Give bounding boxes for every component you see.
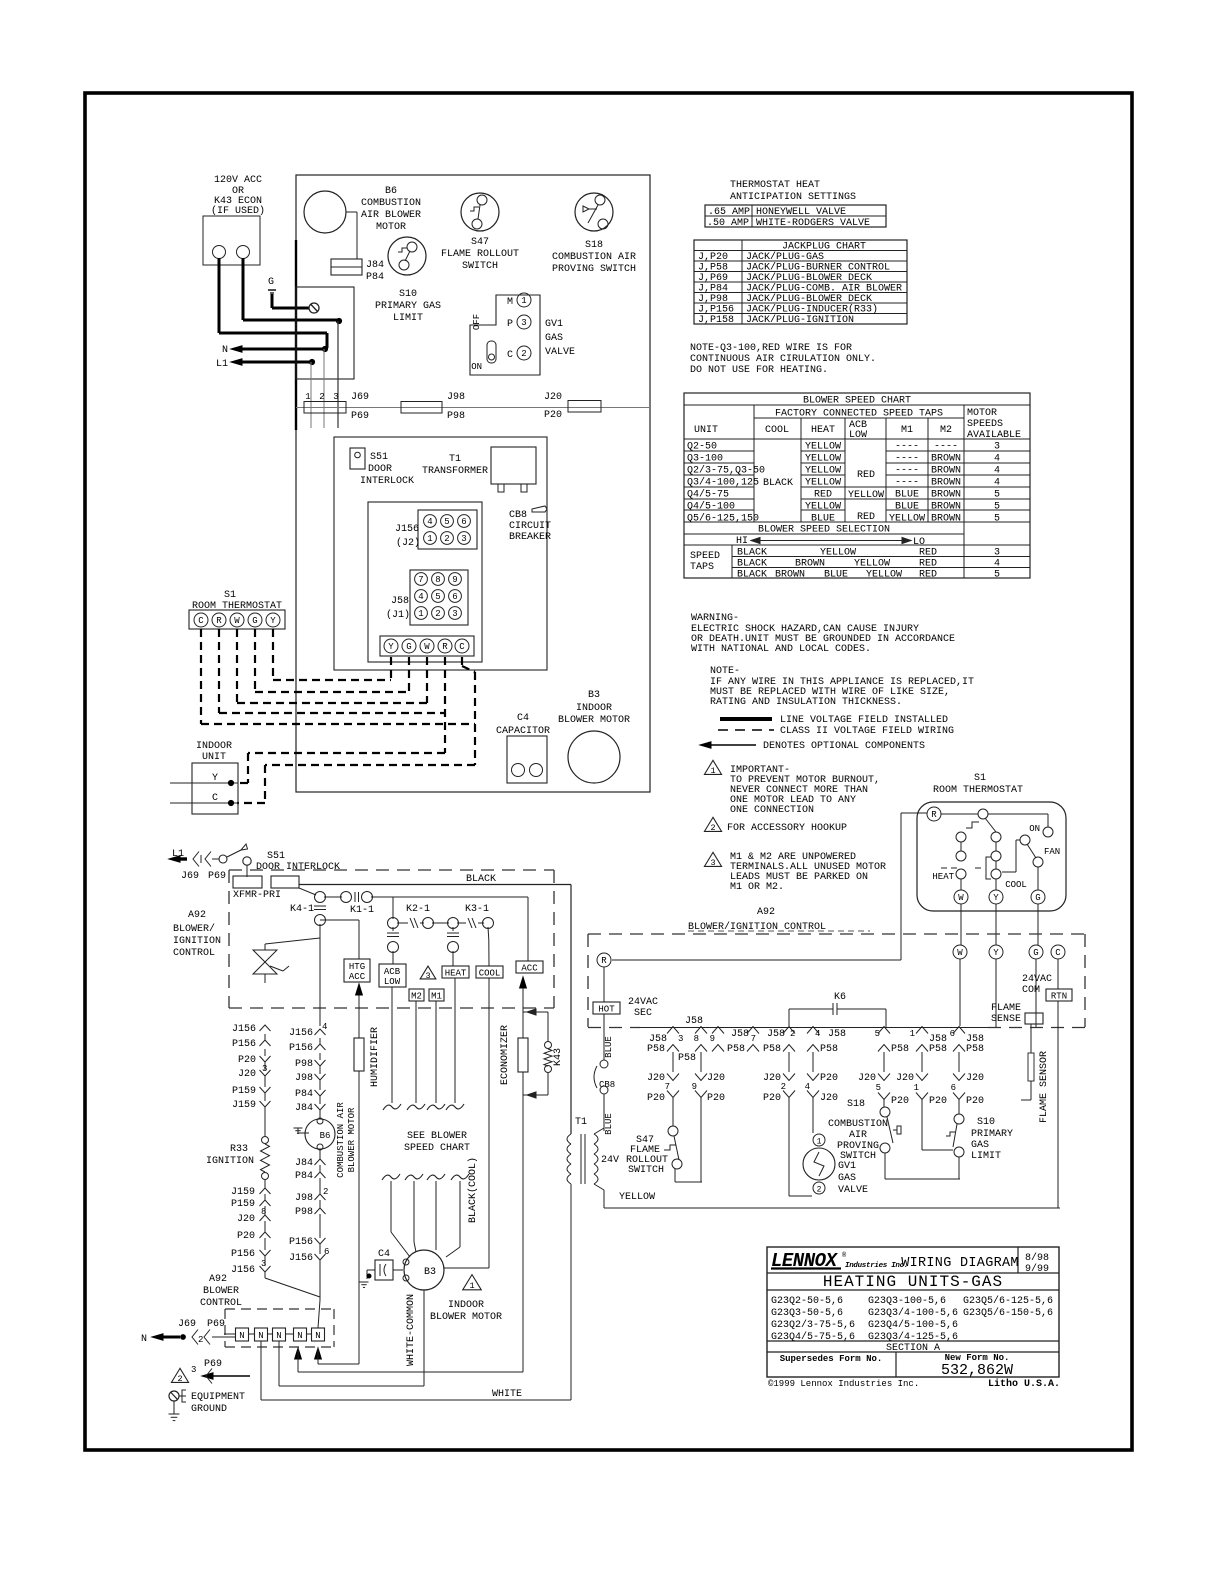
svg-text:G23Q3/4-100-5,6: G23Q3/4-100-5,6	[868, 1307, 958, 1319]
svg-text:1: 1	[521, 296, 526, 306]
svg-text:5: 5	[994, 570, 1000, 581]
svg-text:J84: J84	[295, 1103, 313, 1114]
svg-text:K3-1: K3-1	[465, 904, 489, 915]
svg-text:2: 2	[710, 823, 715, 833]
svg-text:C: C	[459, 642, 465, 652]
svg-text:3: 3	[425, 971, 430, 981]
svg-text:HONEYWELL VALVE: HONEYWELL VALVE	[756, 207, 846, 218]
svg-text:8: 8	[261, 1207, 266, 1217]
svg-text:----: ----	[895, 466, 919, 477]
wire cool black	[488, 978, 490, 1268]
svg-text:P58: P58	[763, 1044, 781, 1055]
svg-text:B6: B6	[385, 186, 397, 197]
wire N box1 to entry	[224, 1333, 236, 1335]
svg-text:BREAKER: BREAKER	[509, 532, 551, 543]
svg-text:J20: J20	[647, 1073, 665, 1084]
anticipation table	[705, 205, 886, 227]
svg-text:PRIMARY: PRIMARY	[971, 1129, 1013, 1140]
svg-text:JACK/PLUG-BLOWER DECK: JACK/PLUG-BLOWER DECK	[746, 272, 872, 284]
svg-text:1: 1	[914, 1083, 919, 1093]
svg-text:ONE CONNECTION: ONE CONNECTION	[730, 805, 814, 816]
connector J58 J1 grid	[410, 570, 468, 625]
svg-text:PRIMARY GAS: PRIMARY GAS	[375, 301, 441, 312]
screw terminal	[309, 303, 319, 313]
wire yellow bus	[603, 1190, 605, 1208]
svg-text:W: W	[958, 893, 964, 903]
svg-text:LOW: LOW	[849, 430, 867, 441]
svg-text:24VAC: 24VAC	[1022, 974, 1052, 985]
svg-text:G23Q3-100-5,6: G23Q3-100-5,6	[868, 1296, 946, 1307]
svg-text:J98: J98	[447, 392, 465, 403]
svg-text:P20: P20	[238, 1055, 256, 1066]
svg-text:J58: J58	[391, 596, 409, 607]
neutral terminal boxes N	[236, 1328, 249, 1341]
svg-text:1: 1	[469, 1281, 474, 1291]
svg-text:P58: P58	[929, 1044, 947, 1055]
motor B3 lower	[404, 1250, 444, 1290]
svg-text:N: N	[276, 1331, 281, 1341]
svg-text:COM: COM	[1022, 985, 1040, 996]
svg-text:4: 4	[994, 466, 1000, 477]
svg-text:J156: J156	[232, 1024, 256, 1035]
svg-text:M1 OR M2.: M1 OR M2.	[730, 882, 784, 893]
svg-text:3: 3	[262, 1064, 267, 1074]
svg-text:J20: J20	[820, 1093, 838, 1104]
svg-text:J98: J98	[295, 1193, 313, 1204]
svg-text:P98: P98	[447, 411, 465, 422]
svg-text:N: N	[141, 1334, 147, 1345]
svg-text:CONTROL: CONTROL	[200, 1298, 242, 1309]
svg-text:Q2/3-75,Q3-50: Q2/3-75,Q3-50	[687, 465, 765, 477]
svg-text:2: 2	[198, 1335, 203, 1345]
svg-text:SENSE: SENSE	[991, 1014, 1021, 1025]
switch S47 flame rollout symbol	[461, 193, 499, 231]
svg-text:BROWN: BROWN	[775, 570, 805, 581]
svg-text:ON: ON	[1029, 824, 1040, 834]
svg-text:2: 2	[435, 609, 440, 619]
svg-text:1: 1	[910, 1029, 915, 1039]
svg-text:P20: P20	[647, 1093, 665, 1104]
svg-text:M1: M1	[901, 425, 913, 436]
svg-text:TAPS: TAPS	[690, 562, 714, 573]
svg-text:SPEED CHART: SPEED CHART	[404, 1143, 470, 1154]
svg-text:BLUE: BLUE	[895, 502, 919, 513]
wire white-common	[423, 1290, 425, 1386]
wire humidifier line	[356, 984, 363, 995]
svg-text:YELLOW: YELLOW	[848, 490, 884, 501]
svg-text:J,P20: J,P20	[698, 252, 728, 263]
wire R to thermostat	[612, 959, 901, 961]
svg-text:B6: B6	[320, 1131, 331, 1141]
svg-text:J20: J20	[966, 1073, 984, 1084]
svg-text:J58: J58	[828, 1029, 846, 1040]
box HOT	[593, 1002, 620, 1014]
svg-text:8: 8	[694, 1034, 699, 1044]
connector tap J58-3 chain to S47	[667, 1027, 679, 1034]
svg-text:G23Q4/5-100-5,6: G23Q4/5-100-5,6	[868, 1319, 958, 1331]
terminal W lower	[953, 945, 967, 959]
svg-text:S1: S1	[974, 773, 986, 784]
svg-text:P84: P84	[295, 1089, 313, 1100]
svg-text:CB8: CB8	[599, 1080, 615, 1090]
svg-text:R: R	[442, 642, 448, 652]
box RTN	[1046, 989, 1072, 1001]
important triangle 1 note	[704, 760, 721, 774]
svg-text:P156: P156	[231, 1249, 255, 1260]
svg-text:DO NOT USE FOR HEATING.: DO NOT USE FOR HEATING.	[690, 365, 828, 376]
wire Y down lower	[995, 959, 997, 1027]
svg-text:SECTION A: SECTION A	[886, 1343, 940, 1354]
svg-text:LOW: LOW	[384, 977, 401, 987]
svg-text:J156: J156	[289, 1028, 313, 1039]
svg-text:RTN: RTN	[1051, 992, 1067, 1002]
svg-text:P159: P159	[232, 1086, 256, 1097]
svg-text:SEE BLOWER: SEE BLOWER	[407, 1131, 467, 1142]
svg-text:UNIT: UNIT	[202, 752, 226, 763]
svg-text:WHITE-RODGERS VALVE: WHITE-RODGERS VALVE	[756, 218, 870, 229]
svg-text:OFF: OFF	[472, 314, 482, 330]
svg-text:HEATING UNITS-GAS: HEATING UNITS-GAS	[823, 1273, 1003, 1291]
wire N with arrow	[231, 346, 242, 352]
svg-text:LIMIT: LIMIT	[971, 1151, 1001, 1162]
svg-text:YELLOW: YELLOW	[619, 1192, 655, 1203]
svg-text:ROOM THERMOSTAT: ROOM THERMOSTAT	[933, 785, 1023, 796]
triac ignition control symbol	[319, 924, 321, 938]
svg-text:P20: P20	[966, 1096, 984, 1107]
svg-text:8/98: 8/98	[1025, 1252, 1049, 1264]
terminal R lower	[597, 953, 611, 967]
wire pins 1 2 3 to J69	[310, 362, 312, 428]
svg-text:C: C	[507, 350, 513, 361]
svg-text:B3: B3	[424, 1267, 436, 1278]
svg-text:3: 3	[191, 1365, 196, 1375]
svg-text:BLUE: BLUE	[895, 490, 919, 501]
svg-text:S51: S51	[267, 851, 285, 862]
flame sensor rod	[1028, 1053, 1034, 1081]
wire W down	[960, 904, 962, 945]
connector J84 P84	[331, 259, 362, 275]
svg-text:S47: S47	[471, 237, 489, 248]
heat anticipator symbol	[966, 822, 979, 828]
svg-text:AIR: AIR	[849, 1130, 867, 1141]
svg-text:1: 1	[418, 609, 423, 619]
svg-text:HOT: HOT	[598, 1005, 615, 1015]
thermostat cool contact chain	[991, 832, 1001, 842]
svg-text:COMBUSTION AIR: COMBUSTION AIR	[336, 1102, 346, 1178]
svg-text:M1: M1	[431, 992, 442, 1002]
connector J20 P20	[568, 401, 601, 413]
svg-text:.65 AMP: .65 AMP	[708, 207, 750, 218]
svg-text:P58: P58	[966, 1044, 984, 1055]
svg-text:J,P58: J,P58	[698, 263, 728, 274]
svg-text:G23Q5/6-125-5,6: G23Q5/6-125-5,6	[963, 1295, 1053, 1307]
svg-text:INDOOR: INDOOR	[196, 741, 232, 752]
svg-text:P20: P20	[820, 1073, 838, 1084]
legend line voltage	[720, 717, 772, 721]
svg-text:YELLOW: YELLOW	[805, 442, 841, 453]
svg-text:J156: J156	[231, 1265, 255, 1276]
svg-text:9: 9	[692, 1082, 697, 1092]
svg-text:J84: J84	[366, 260, 384, 271]
A92 dashed box left	[229, 869, 554, 871]
svg-text:ACB: ACB	[384, 967, 401, 977]
svg-text:G: G	[406, 642, 411, 652]
thermostat terminal strip C R W G Y	[189, 610, 285, 629]
svg-text:ACC: ACC	[349, 972, 366, 982]
svg-text:K1-1: K1-1	[350, 905, 374, 916]
svg-text:1: 1	[710, 766, 715, 776]
svg-text:T1: T1	[449, 454, 461, 465]
svg-text:Y: Y	[270, 616, 276, 626]
svg-text:J,P84: J,P84	[698, 284, 728, 295]
svg-text:S1: S1	[224, 590, 236, 601]
breaker CB8 lower	[600, 1060, 608, 1068]
svg-text:G23Q4/5-75-5,6: G23Q4/5-75-5,6	[771, 1331, 855, 1343]
svg-text:ECONOMIZER: ECONOMIZER	[500, 1025, 511, 1085]
svg-text:A92: A92	[188, 910, 206, 921]
svg-text:6: 6	[461, 517, 466, 527]
svg-text:BLACK: BLACK	[737, 559, 767, 570]
svg-text:S18: S18	[585, 240, 603, 251]
svg-text:2: 2	[323, 1187, 328, 1197]
svg-text:BROWN: BROWN	[931, 478, 961, 489]
svg-text:AVAILABLE: AVAILABLE	[967, 430, 1021, 441]
box ACB LOW	[379, 964, 406, 987]
thermostat fan switch	[1020, 835, 1030, 845]
resistor R33 ignition	[262, 1137, 269, 1144]
svg-text:BLOWER MOTOR: BLOWER MOTOR	[558, 715, 630, 726]
control box A92 outline	[334, 437, 547, 670]
svg-text:M2: M2	[940, 425, 952, 436]
svg-text:INDOOR: INDOOR	[448, 1300, 484, 1311]
svg-text:CONTROL: CONTROL	[173, 948, 215, 959]
svg-text:C4: C4	[378, 1249, 390, 1260]
svg-text:S51: S51	[370, 452, 388, 463]
wire C to RTN	[1057, 959, 1059, 989]
transformer T1 box	[491, 447, 536, 484]
svg-text:HEAT: HEAT	[445, 969, 467, 979]
svg-text:S10: S10	[399, 289, 417, 300]
svg-text:MOTOR: MOTOR	[967, 408, 997, 419]
wire economizer to N box	[298, 1371, 523, 1373]
svg-text:IGNITION: IGNITION	[206, 1156, 254, 1167]
legend class II voltage	[718, 729, 774, 731]
relay contact K4-1	[299, 888, 316, 895]
svg-text:P84: P84	[295, 1171, 313, 1182]
svg-text:NOTE-Q3-100,RED WIRE IS FOR: NOTE-Q3-100,RED WIRE IS FOR	[690, 343, 852, 354]
svg-text:M: M	[507, 297, 513, 308]
svg-text:HI: HI	[736, 536, 748, 547]
dashed class II wires thermostat to control	[200, 629, 202, 724]
svg-text:LINE VOLTAGE FIELD INSTALLED: LINE VOLTAGE FIELD INSTALLED	[780, 715, 948, 726]
svg-text:Industries Inc.: Industries Inc.	[845, 1262, 908, 1270]
svg-text:G: G	[268, 277, 274, 288]
terminal C lower	[1051, 945, 1065, 959]
svg-text:24V: 24V	[601, 1155, 619, 1166]
svg-text:5: 5	[444, 517, 449, 527]
svg-text:W: W	[424, 642, 430, 652]
svg-text:GROUND: GROUND	[191, 1404, 227, 1415]
svg-text:EQUIPMENT: EQUIPMENT	[191, 1392, 245, 1403]
svg-text:.50 AMP: .50 AMP	[707, 218, 749, 229]
dashed wire C to indoor unit	[461, 657, 463, 666]
svg-text:WITH NATIONAL AND LOCAL CODES.: WITH NATIONAL AND LOCAL CODES.	[691, 644, 871, 655]
svg-text:J20: J20	[238, 1069, 256, 1080]
cap contact below K2-1	[392, 927, 394, 931]
svg-text:BLOWER: BLOWER	[203, 1286, 239, 1297]
switch S51 door interlock	[350, 448, 365, 469]
accessory terminal box	[203, 216, 260, 265]
switch S10 primary gas limit symbol	[388, 237, 426, 275]
circuit breaker CB8 symbol	[532, 506, 547, 512]
svg-text:INTERLOCK: INTERLOCK	[360, 476, 414, 487]
svg-text:K6: K6	[834, 992, 846, 1003]
svg-text:N: N	[222, 345, 228, 356]
svg-text:J156: J156	[395, 524, 419, 535]
svg-text:YELLOW: YELLOW	[866, 570, 902, 581]
border frame	[85, 93, 1132, 1450]
svg-text:WHITE-COMMON: WHITE-COMMON	[406, 1294, 417, 1366]
svg-text:P20: P20	[544, 410, 562, 421]
svg-text:G23Q5/6-150-5,6: G23Q5/6-150-5,6	[963, 1307, 1053, 1319]
svg-text:JACKPLUG CHART: JACKPLUG CHART	[782, 242, 866, 253]
svg-text:CB8: CB8	[509, 510, 527, 521]
svg-text:4: 4	[994, 478, 1000, 489]
svg-text:J20: J20	[544, 392, 562, 403]
box COOL	[476, 966, 503, 978]
svg-text:3: 3	[678, 1034, 683, 1044]
svg-text:P20: P20	[763, 1093, 781, 1104]
svg-text:YELLOW: YELLOW	[805, 478, 841, 489]
svg-text:1: 1	[305, 392, 310, 402]
svg-text:LIMIT: LIMIT	[393, 313, 423, 324]
svg-text:CIRCUIT: CIRCUIT	[509, 521, 551, 532]
svg-text:P156: P156	[289, 1237, 313, 1248]
svg-text:COMBUSTION: COMBUSTION	[828, 1119, 888, 1130]
svg-text:ANTICIPATION SETTINGS: ANTICIPATION SETTINGS	[730, 192, 856, 203]
svg-text:GV1: GV1	[545, 319, 563, 330]
wire K3-1 to COOL	[487, 927, 490, 940]
svg-text:JACK/PLUG-COMB. AIR BLOWER: JACK/PLUG-COMB. AIR BLOWER	[746, 283, 902, 295]
svg-text:5: 5	[994, 502, 1000, 513]
svg-text:120V ACC: 120V ACC	[214, 175, 262, 186]
accessory hookup triangle 2 note	[704, 817, 721, 831]
thermostat terminal G	[1037, 867, 1039, 890]
svg-text:J20: J20	[858, 1073, 876, 1084]
svg-text:BLACK: BLACK	[763, 478, 793, 489]
svg-text:J159: J159	[232, 1100, 256, 1111]
svg-text:DOOR: DOOR	[368, 464, 392, 475]
svg-text:5: 5	[994, 490, 1000, 501]
svg-text:J20: J20	[896, 1073, 914, 1084]
svg-text:Y: Y	[993, 893, 999, 903]
svg-text:Y: Y	[993, 948, 999, 958]
thermostat rounded box	[917, 802, 1066, 911]
svg-text:7: 7	[418, 575, 423, 585]
svg-text:YELLOW: YELLOW	[889, 514, 925, 525]
motor B6 inducer symbol	[305, 1119, 335, 1149]
blower speed chart table	[684, 393, 1030, 578]
svg-text:G: G	[252, 616, 257, 626]
svg-text:P58: P58	[820, 1044, 838, 1055]
svg-text:J,P98: J,P98	[698, 294, 728, 305]
svg-text:JACK/PLUG-BURNER CONTROL: JACK/PLUG-BURNER CONTROL	[746, 262, 890, 274]
svg-text:(J1): (J1)	[386, 609, 410, 621]
svg-text:G23Q2-50-5,6: G23Q2-50-5,6	[771, 1296, 843, 1307]
svg-text:J20: J20	[763, 1073, 781, 1084]
branch to K2-1 row	[392, 897, 394, 919]
svg-text:RED: RED	[919, 570, 937, 581]
svg-text:Q3-100: Q3-100	[687, 454, 723, 465]
svg-text:RED: RED	[919, 548, 937, 559]
svg-text:SEC: SEC	[634, 1008, 652, 1019]
wire G down lower	[1035, 959, 1037, 1027]
svg-text:SWITCH: SWITCH	[628, 1165, 664, 1176]
svg-text:1: 1	[427, 534, 432, 544]
svg-text:G: G	[1035, 893, 1040, 903]
wire W to chain 6	[959, 959, 961, 1026]
svg-text:COMBUSTION AIR: COMBUSTION AIR	[552, 252, 636, 263]
svg-text:C: C	[212, 793, 218, 804]
svg-text:C: C	[198, 616, 204, 626]
svg-text:(J2): (J2)	[396, 537, 420, 549]
svg-text:4: 4	[427, 517, 432, 527]
switch S18 combustion air proving symbol	[575, 193, 613, 231]
svg-text:4: 4	[322, 1022, 327, 1032]
svg-text:BLACK(COOL): BLACK(COOL)	[467, 1157, 479, 1223]
terminal Y lower	[989, 945, 1003, 959]
wire B6 to J84	[346, 211, 357, 213]
switch S10 primary gas limit lower	[954, 1114, 964, 1124]
svg-text:MOTOR: MOTOR	[376, 222, 406, 233]
svg-text:4: 4	[994, 559, 1000, 570]
wires motor leads with breaks	[391, 987, 393, 1103]
motor B6 combustion air blower	[304, 191, 346, 233]
svg-text:BLACK: BLACK	[466, 874, 496, 885]
thermostat heat contact chain	[956, 832, 966, 842]
svg-text:J20: J20	[707, 1073, 725, 1084]
svg-text:LO: LO	[913, 537, 925, 548]
svg-text:©1999 Lennox Industries Inc.: ©1999 Lennox Industries Inc.	[768, 1379, 919, 1389]
svg-text:BROWN: BROWN	[931, 502, 961, 513]
connector J69 P69	[304, 402, 346, 414]
terminal G lower	[1029, 945, 1043, 959]
wire to ACC	[527, 897, 529, 961]
triangle 3 marker	[420, 966, 436, 979]
svg-text:6: 6	[950, 1029, 955, 1039]
svg-text:R: R	[216, 616, 222, 626]
svg-text:WHITE: WHITE	[492, 1389, 522, 1400]
svg-text:K2-1: K2-1	[406, 904, 430, 915]
svg-text:BLOWER MOTOR: BLOWER MOTOR	[347, 1107, 357, 1172]
svg-text:L1: L1	[216, 359, 228, 370]
svg-text:J69: J69	[181, 871, 199, 882]
connector J156 J2 grid	[418, 510, 477, 549]
svg-text:P69: P69	[351, 411, 369, 422]
svg-text:BLUE: BLUE	[824, 570, 848, 581]
svg-text:A92: A92	[757, 907, 775, 918]
svg-text:YELLOW: YELLOW	[820, 548, 856, 559]
relay K43 branch	[523, 1011, 548, 1013]
svg-text:J156: J156	[289, 1253, 313, 1264]
svg-text:B3: B3	[588, 690, 600, 701]
svg-text:(IF USED): (IF USED)	[211, 205, 265, 217]
svg-text:FAN: FAN	[1044, 847, 1060, 857]
svg-text:N: N	[315, 1331, 320, 1341]
svg-text:P20: P20	[929, 1096, 947, 1107]
svg-text:3: 3	[461, 534, 466, 544]
svg-text:P69: P69	[208, 871, 226, 882]
